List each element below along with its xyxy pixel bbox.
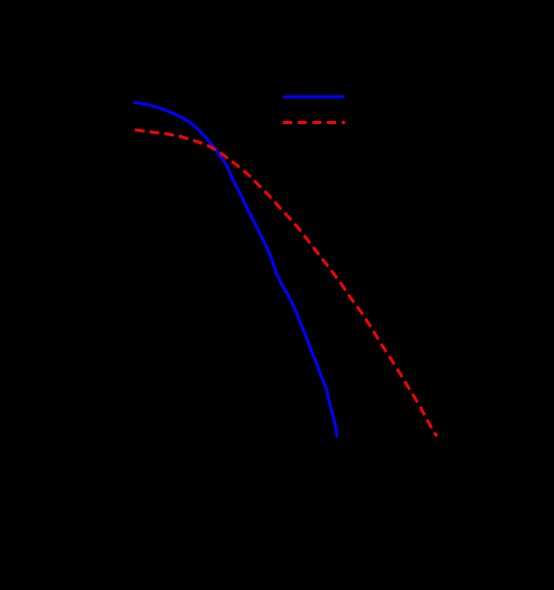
- legend blue line sample: [283, 95, 344, 98]
- blue solid curve: [135, 103, 337, 437]
- legend red dashed line sample: [283, 121, 345, 124]
- red dashed curve: [135, 130, 437, 436]
